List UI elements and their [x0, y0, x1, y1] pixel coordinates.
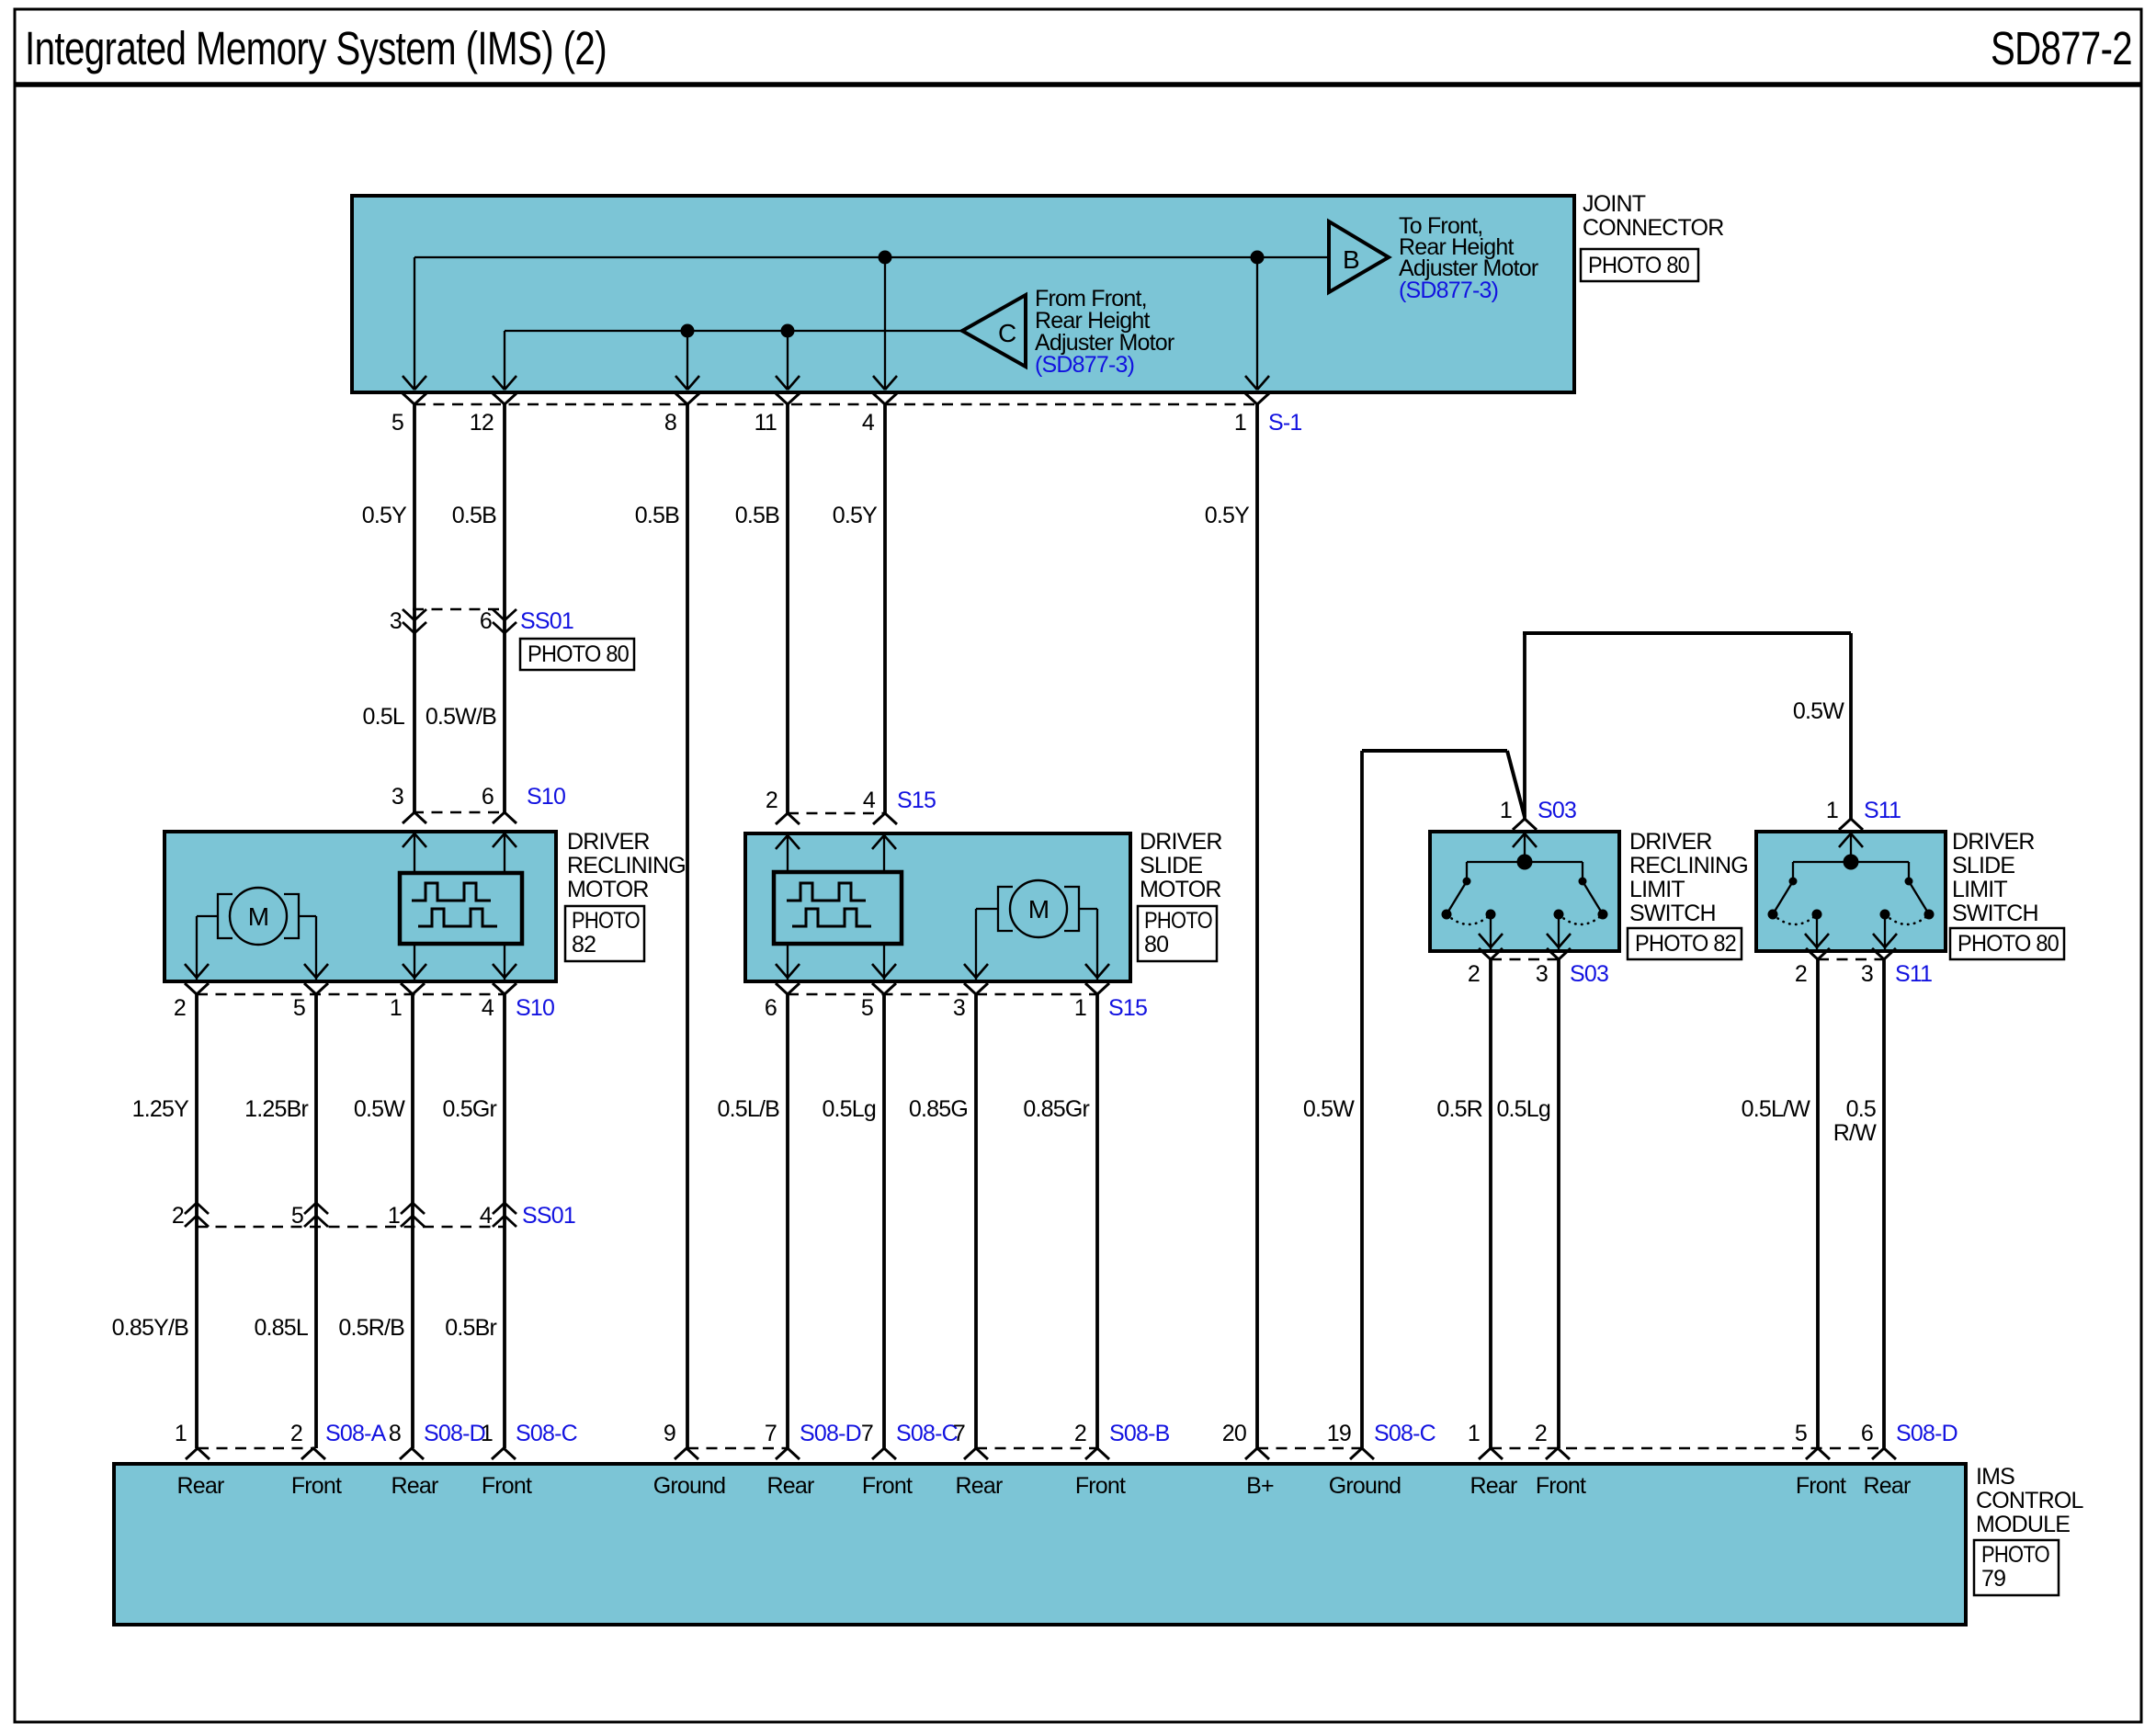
- svg-text:DRIVER: DRIVER: [1952, 829, 2035, 855]
- svg-text:PHOTO: PHOTO: [572, 908, 640, 934]
- svg-text:S15: S15: [897, 788, 936, 813]
- svg-text:1: 1: [1074, 995, 1086, 1021]
- svg-text:PHOTO 80: PHOTO 80: [528, 641, 629, 667]
- svg-text:S11: S11: [1895, 961, 1932, 987]
- svg-text:S11: S11: [1864, 798, 1901, 823]
- svg-text:1: 1: [388, 1203, 400, 1229]
- svg-text:79: 79: [1981, 1566, 2005, 1592]
- svg-text:S08-D: S08-D: [1896, 1421, 1957, 1446]
- svg-text:0.5B: 0.5B: [635, 503, 679, 528]
- svg-text:S08-A: S08-A: [325, 1421, 387, 1446]
- svg-text:82: 82: [572, 932, 596, 958]
- svg-text:2: 2: [1795, 961, 1807, 987]
- svg-text:Ground: Ground: [653, 1473, 726, 1499]
- svg-text:Rear: Rear: [177, 1473, 224, 1499]
- svg-text:DRIVER: DRIVER: [1629, 829, 1712, 855]
- svg-text:4: 4: [862, 410, 875, 436]
- svg-text:M: M: [248, 902, 269, 931]
- svg-text:2: 2: [174, 995, 186, 1021]
- svg-text:RECLINING: RECLINING: [567, 853, 686, 878]
- svg-text:7: 7: [953, 1421, 965, 1446]
- svg-text:0.5Gr: 0.5Gr: [442, 1096, 496, 1122]
- svg-text:1: 1: [481, 1421, 493, 1446]
- svg-text:LIMIT: LIMIT: [1952, 877, 2007, 902]
- svg-text:5: 5: [861, 995, 873, 1021]
- svg-text:Ground: Ground: [1329, 1473, 1401, 1499]
- svg-text:0.5Lg: 0.5Lg: [822, 1096, 876, 1122]
- svg-text:3: 3: [391, 784, 403, 810]
- svg-text:Rear: Rear: [767, 1473, 814, 1499]
- svg-text:0.5Y: 0.5Y: [362, 503, 407, 528]
- svg-text:0.5L: 0.5L: [363, 704, 405, 730]
- svg-text:0.85Gr: 0.85Gr: [1023, 1096, 1089, 1122]
- svg-text:0.5Y: 0.5Y: [833, 503, 878, 528]
- svg-text:5: 5: [391, 410, 403, 436]
- svg-text:5: 5: [293, 995, 305, 1021]
- svg-text:1: 1: [175, 1421, 187, 1446]
- svg-text:12: 12: [470, 410, 494, 436]
- svg-text:6: 6: [482, 784, 494, 810]
- svg-text:20: 20: [1222, 1421, 1246, 1446]
- svg-text:3: 3: [1861, 961, 1873, 987]
- svg-text:S08-C: S08-C: [516, 1421, 578, 1446]
- svg-text:1.25Y: 1.25Y: [132, 1096, 189, 1122]
- svg-text:0.85L: 0.85L: [254, 1315, 308, 1341]
- svg-text:0.5W: 0.5W: [1793, 698, 1844, 724]
- svg-text:Front: Front: [291, 1473, 342, 1499]
- svg-text:SLIDE: SLIDE: [1140, 853, 1202, 878]
- svg-text:SWITCH: SWITCH: [1952, 901, 2038, 926]
- svg-text:S08-B: S08-B: [1109, 1421, 1170, 1446]
- svg-text:DRIVER: DRIVER: [1140, 829, 1222, 855]
- svg-text:11: 11: [755, 410, 777, 436]
- svg-text:PHOTO: PHOTO: [1981, 1542, 2049, 1568]
- svg-text:0.5L/W: 0.5L/W: [1742, 1096, 1811, 1122]
- svg-text:0.85Y/B: 0.85Y/B: [112, 1315, 188, 1341]
- svg-text:0.5Lg: 0.5Lg: [1496, 1096, 1550, 1122]
- svg-text:1: 1: [1826, 798, 1838, 823]
- svg-text:0.5Br: 0.5Br: [445, 1315, 496, 1341]
- svg-text:0.5B: 0.5B: [452, 503, 496, 528]
- svg-text:19: 19: [1327, 1421, 1351, 1446]
- svg-text:Rear: Rear: [1864, 1473, 1911, 1499]
- svg-text:PHOTO 82: PHOTO 82: [1635, 931, 1736, 957]
- svg-text:6: 6: [1861, 1421, 1873, 1446]
- svg-text:DRIVER: DRIVER: [567, 829, 650, 855]
- svg-text:3: 3: [390, 608, 402, 634]
- svg-text:9: 9: [664, 1421, 675, 1446]
- svg-text:Front: Front: [1796, 1473, 1846, 1499]
- svg-text:SS01: SS01: [522, 1203, 575, 1229]
- svg-text:M: M: [1028, 895, 1050, 924]
- svg-text:Integrated Memory System (IMS): Integrated Memory System (IMS) (2): [25, 22, 607, 74]
- svg-text:MOTOR: MOTOR: [567, 877, 649, 902]
- svg-text:2: 2: [1468, 961, 1480, 987]
- svg-text:0.5R/B: 0.5R/B: [338, 1315, 404, 1341]
- svg-text:4: 4: [482, 995, 494, 1021]
- svg-text:1: 1: [1468, 1421, 1480, 1446]
- svg-text:PHOTO 80: PHOTO 80: [1957, 931, 2059, 957]
- svg-text:Rear: Rear: [391, 1473, 438, 1499]
- svg-text:7: 7: [765, 1421, 777, 1446]
- svg-text:0.5W: 0.5W: [1303, 1096, 1355, 1122]
- svg-text:C: C: [998, 319, 1016, 347]
- svg-text:CONTROL: CONTROL: [1976, 1488, 2084, 1513]
- svg-text:S08-D: S08-D: [424, 1421, 485, 1446]
- svg-text:Rear: Rear: [956, 1473, 1003, 1499]
- svg-text:5: 5: [1795, 1421, 1807, 1446]
- svg-text:Front: Front: [1536, 1473, 1586, 1499]
- svg-text:4: 4: [480, 1203, 493, 1229]
- svg-text:Front: Front: [482, 1473, 532, 1499]
- svg-text:PHOTO: PHOTO: [1144, 908, 1212, 934]
- svg-text:8: 8: [389, 1421, 401, 1446]
- svg-text:1: 1: [1234, 410, 1246, 436]
- svg-text:0.5B: 0.5B: [735, 503, 779, 528]
- svg-text:0.85G: 0.85G: [909, 1096, 968, 1122]
- svg-text:SWITCH: SWITCH: [1629, 901, 1716, 926]
- svg-text:0.5Y: 0.5Y: [1205, 503, 1250, 528]
- svg-text:0.5R: 0.5R: [1436, 1096, 1482, 1122]
- svg-text:2: 2: [290, 1421, 302, 1446]
- svg-text:2: 2: [172, 1203, 184, 1229]
- svg-text:B+: B+: [1246, 1473, 1274, 1499]
- svg-text:R/W: R/W: [1833, 1120, 1877, 1146]
- svg-text:0.5L/B: 0.5L/B: [718, 1096, 780, 1122]
- svg-text:7: 7: [861, 1421, 873, 1446]
- svg-text:S-1: S-1: [1268, 410, 1302, 436]
- svg-text:(SD877-3): (SD877-3): [1399, 278, 1498, 303]
- svg-text:Rear: Rear: [1470, 1473, 1517, 1499]
- svg-text:8: 8: [664, 410, 676, 436]
- svg-text:SD877-2: SD877-2: [1991, 22, 2132, 74]
- svg-text:80: 80: [1144, 932, 1168, 958]
- svg-text:S08-C: S08-C: [1374, 1421, 1436, 1446]
- svg-text:3: 3: [1536, 961, 1548, 987]
- svg-text:0.5W: 0.5W: [354, 1096, 405, 1122]
- svg-text:JOINT: JOINT: [1583, 191, 1646, 217]
- svg-text:B: B: [1343, 245, 1359, 274]
- svg-text:S03: S03: [1538, 798, 1576, 823]
- svg-text:MODULE: MODULE: [1976, 1512, 2070, 1537]
- svg-text:Front: Front: [1075, 1473, 1126, 1499]
- svg-text:Front: Front: [862, 1473, 913, 1499]
- svg-text:MOTOR: MOTOR: [1140, 877, 1221, 902]
- svg-text:SS01: SS01: [520, 608, 573, 634]
- svg-text:RECLINING: RECLINING: [1629, 853, 1748, 878]
- svg-text:1: 1: [1500, 798, 1512, 823]
- svg-text:1.25Br: 1.25Br: [244, 1096, 308, 1122]
- svg-text:CONNECTOR: CONNECTOR: [1583, 215, 1723, 241]
- svg-text:S15: S15: [1108, 995, 1147, 1021]
- svg-text:S08-D: S08-D: [800, 1421, 861, 1446]
- svg-text:IMS: IMS: [1976, 1464, 2014, 1490]
- svg-text:0.5W/B: 0.5W/B: [426, 704, 496, 730]
- svg-text:2: 2: [1535, 1421, 1547, 1446]
- svg-text:SLIDE: SLIDE: [1952, 853, 2014, 878]
- svg-text:S10: S10: [527, 784, 565, 810]
- svg-text:5: 5: [291, 1203, 303, 1229]
- svg-text:S08-C: S08-C: [896, 1421, 959, 1446]
- svg-text:S03: S03: [1570, 961, 1608, 987]
- svg-text:3: 3: [953, 995, 965, 1021]
- svg-text:2: 2: [766, 788, 777, 813]
- svg-text:4: 4: [863, 788, 876, 813]
- svg-text:(SD877-3): (SD877-3): [1035, 352, 1134, 378]
- svg-text:2: 2: [1074, 1421, 1086, 1446]
- svg-text:0.5: 0.5: [1846, 1096, 1876, 1122]
- svg-text:PHOTO 80: PHOTO 80: [1588, 253, 1689, 278]
- svg-text:6: 6: [765, 995, 777, 1021]
- svg-text:1: 1: [390, 995, 402, 1021]
- svg-text:6: 6: [480, 608, 492, 634]
- svg-text:S10: S10: [516, 995, 554, 1021]
- svg-text:LIMIT: LIMIT: [1629, 877, 1685, 902]
